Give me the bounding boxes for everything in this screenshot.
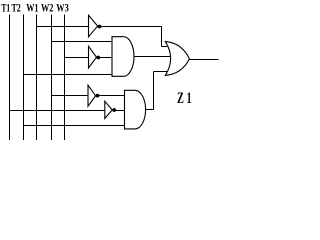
svg-text:W1: W1 xyxy=(26,0,38,14)
svg-text:T2: T2 xyxy=(12,0,21,14)
svg-text:W3: W3 xyxy=(56,0,68,14)
svg-text:W2: W2 xyxy=(41,0,53,14)
svg-text:Z 1: Z 1 xyxy=(177,90,192,107)
svg-text:T1: T1 xyxy=(1,0,10,14)
